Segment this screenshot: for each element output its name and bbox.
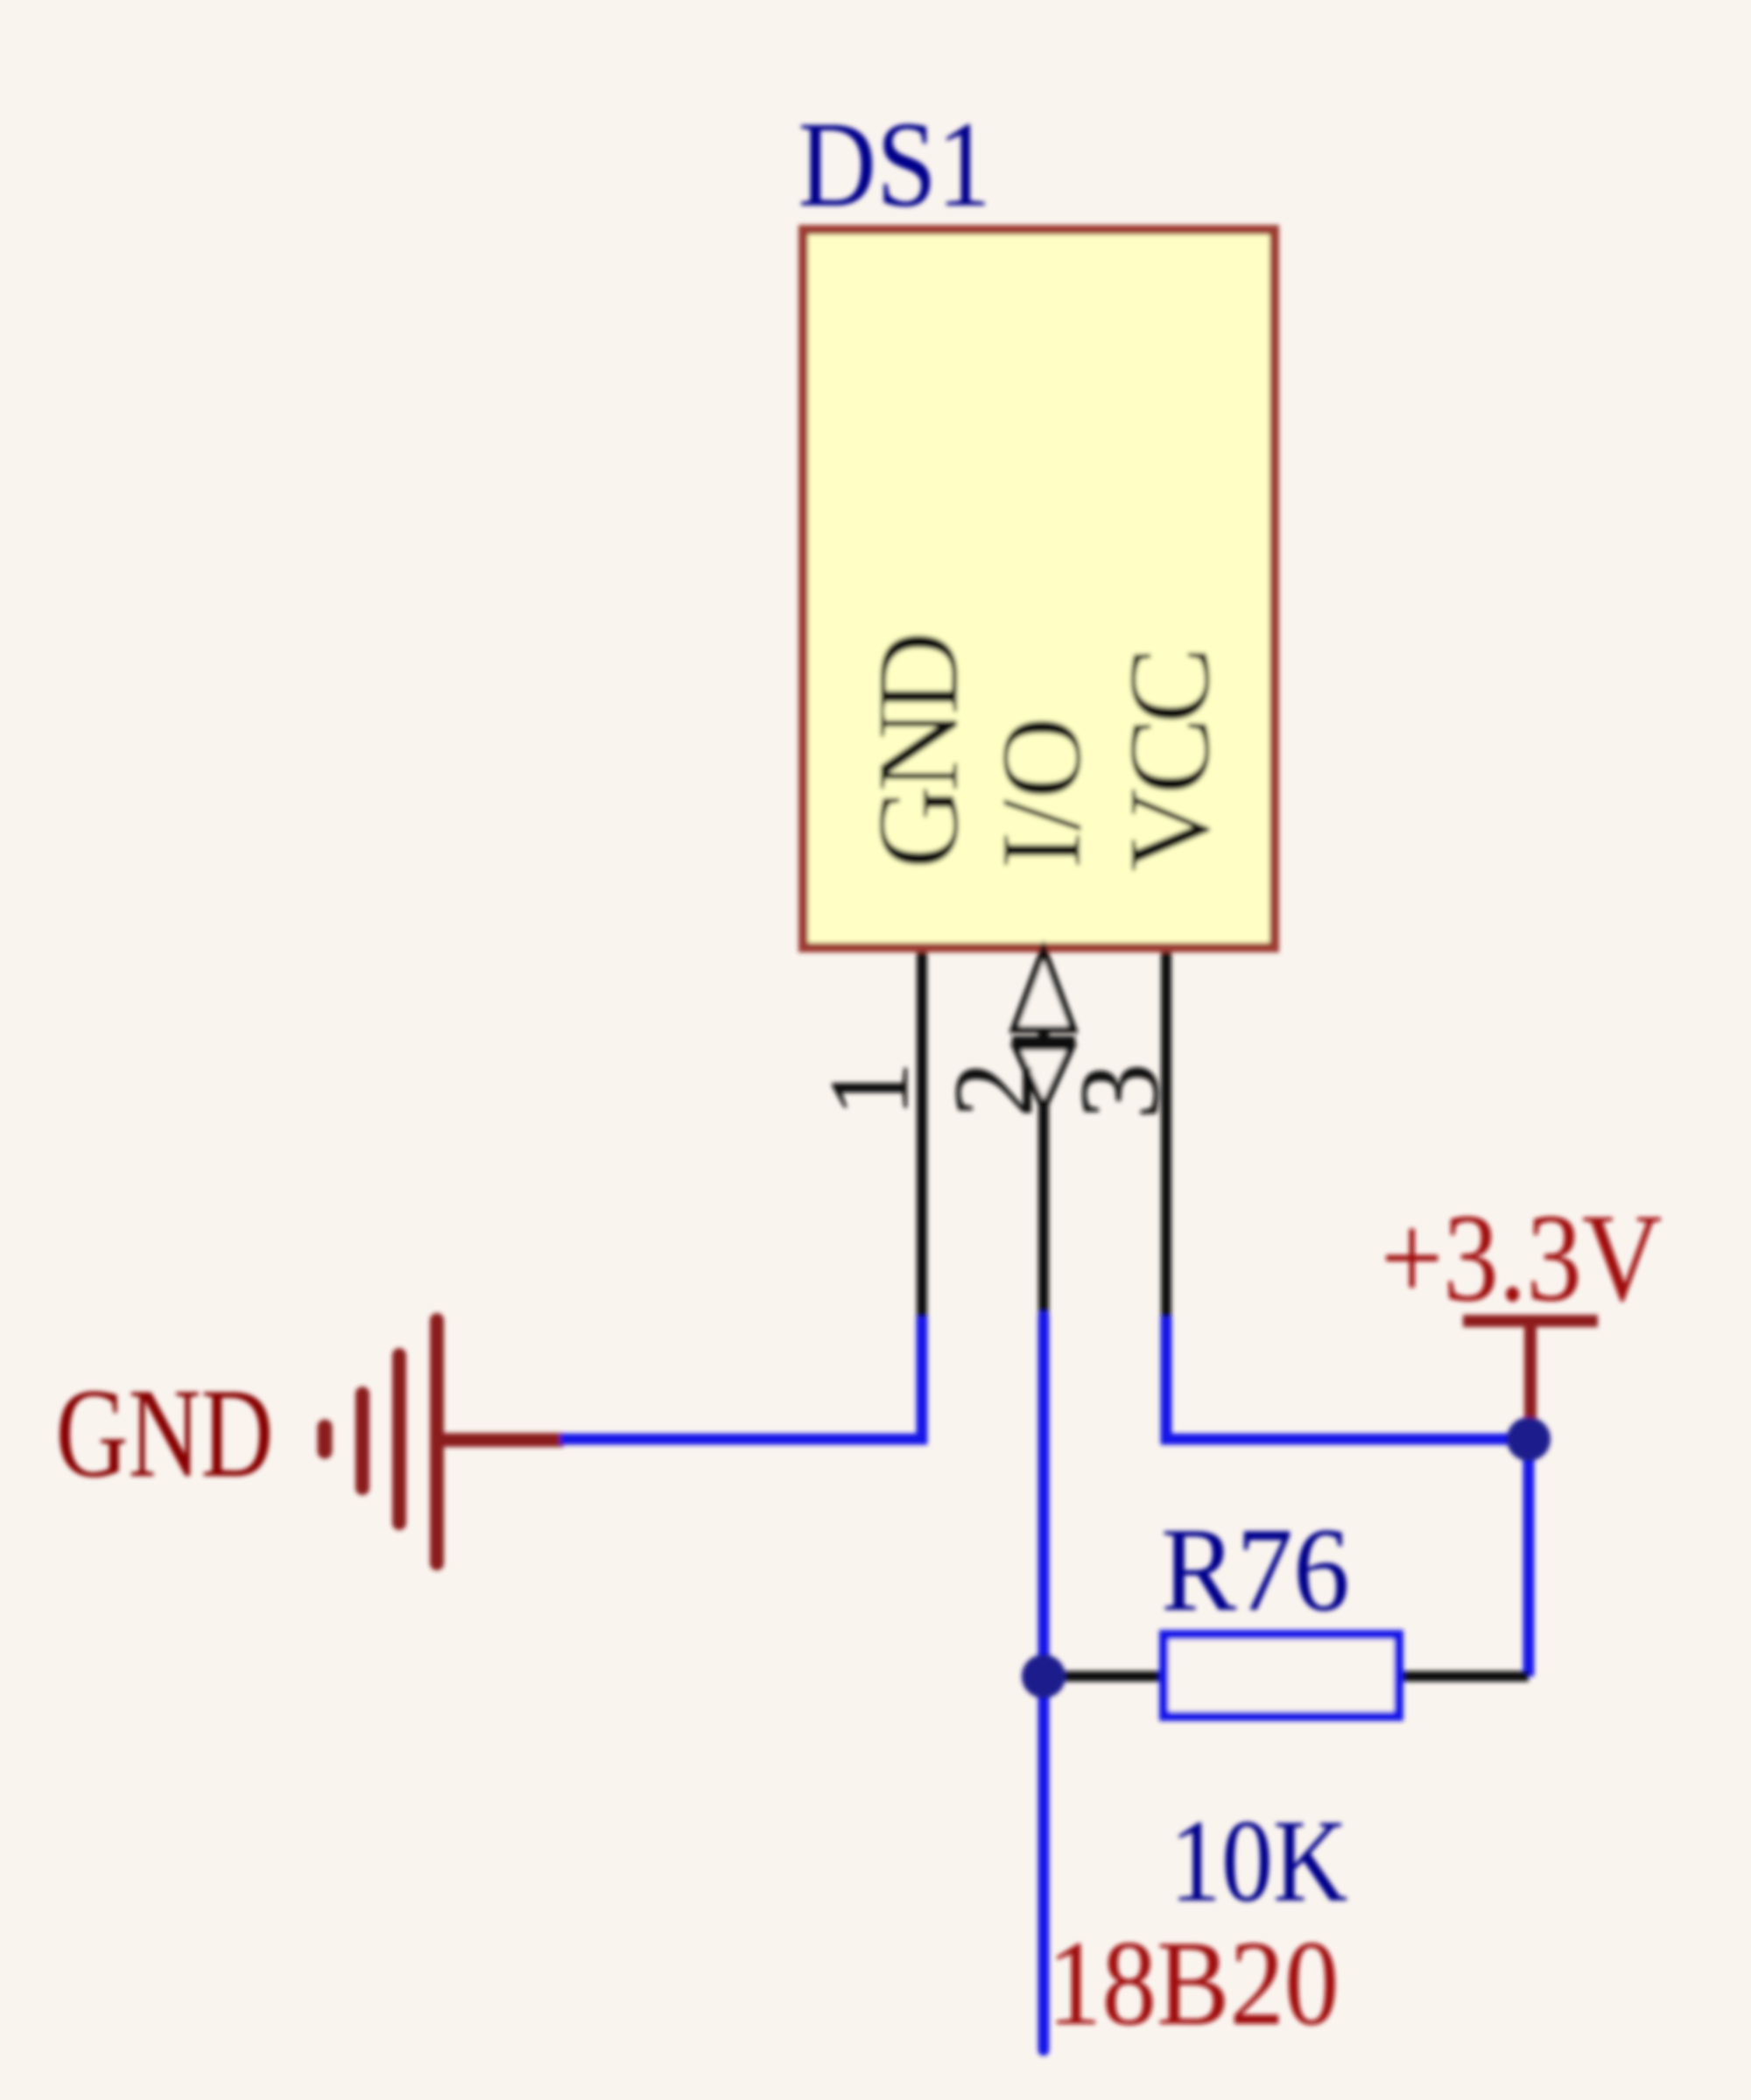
wire +3.3V vertical drop (1523, 1434, 1535, 1676)
svg-text:1: 1 (806, 1061, 932, 1118)
wire pin1 vertical (917, 1317, 928, 1444)
wire pin2 vertical (I/O net) (1038, 1317, 1050, 2050)
wire VCC horizontal (1161, 1434, 1529, 1445)
pin 1 lead (917, 952, 927, 1318)
svg-text:GND: GND (853, 636, 982, 869)
resistor R76 body (1164, 1635, 1399, 1717)
component DS1 body (804, 230, 1275, 948)
pin 3 lead (1161, 952, 1171, 1318)
svg-text:10K: 10K (1170, 1796, 1347, 1927)
value 10K (1170, 1796, 1347, 1927)
svg-text:R76: R76 (1161, 1503, 1350, 1636)
resistor R76 leads (1044, 1671, 1164, 1682)
ground symbol (325, 1320, 564, 1563)
svg-text:3: 3 (1057, 1063, 1183, 1120)
pin 2 lead (1038, 952, 1049, 1318)
svg-text:I/O: I/O (978, 716, 1105, 869)
svg-text:GND: GND (56, 1363, 274, 1504)
svg-text:VCC: VCC (1104, 652, 1234, 872)
svg-text:18B20: 18B20 (1047, 1915, 1340, 2051)
wire GND horizontal (560, 1434, 927, 1445)
pin 2 I/O arrow up (1012, 950, 1075, 1040)
svg-text:2: 2 (931, 1061, 1057, 1118)
power stem (1524, 1321, 1537, 1427)
pin 2 I/O arrow down (1016, 1047, 1072, 1108)
svg-text:DS1: DS1 (798, 96, 992, 233)
svg-text:+3.3V: +3.3V (1381, 1189, 1662, 1328)
net label GND (56, 1363, 274, 1504)
junction at I/O node (1022, 1654, 1065, 1698)
junction at +3.3V node (1507, 1417, 1551, 1461)
designator DS1 (798, 96, 992, 233)
power label +3.3V (1381, 1189, 1662, 1328)
label R76 (1161, 1503, 1350, 1636)
wire pin3 vertical (1161, 1317, 1172, 1444)
power bar symbol (1463, 1315, 1598, 1327)
net label 18B20 (1047, 1915, 1340, 2051)
